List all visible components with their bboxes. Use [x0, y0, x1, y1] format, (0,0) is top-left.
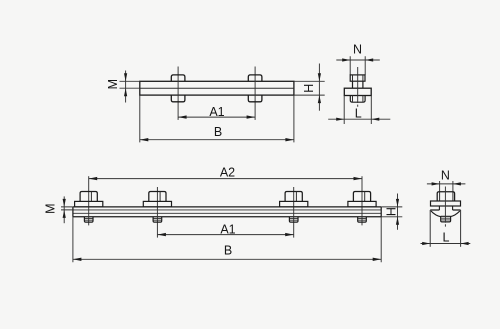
svg-text:A1: A1	[209, 105, 224, 119]
svg-text:A1: A1	[220, 222, 235, 236]
svg-text:N: N	[441, 169, 450, 183]
svg-text:H: H	[384, 207, 398, 216]
svg-text:L: L	[443, 231, 450, 245]
svg-text:H: H	[302, 84, 316, 93]
svg-text:M: M	[106, 79, 120, 89]
svg-text:B: B	[214, 125, 222, 139]
svg-text:M: M	[44, 203, 58, 213]
svg-text:N: N	[353, 43, 362, 57]
svg-text:B: B	[224, 244, 232, 258]
svg-text:L: L	[355, 106, 362, 120]
svg-text:A2: A2	[220, 165, 235, 179]
